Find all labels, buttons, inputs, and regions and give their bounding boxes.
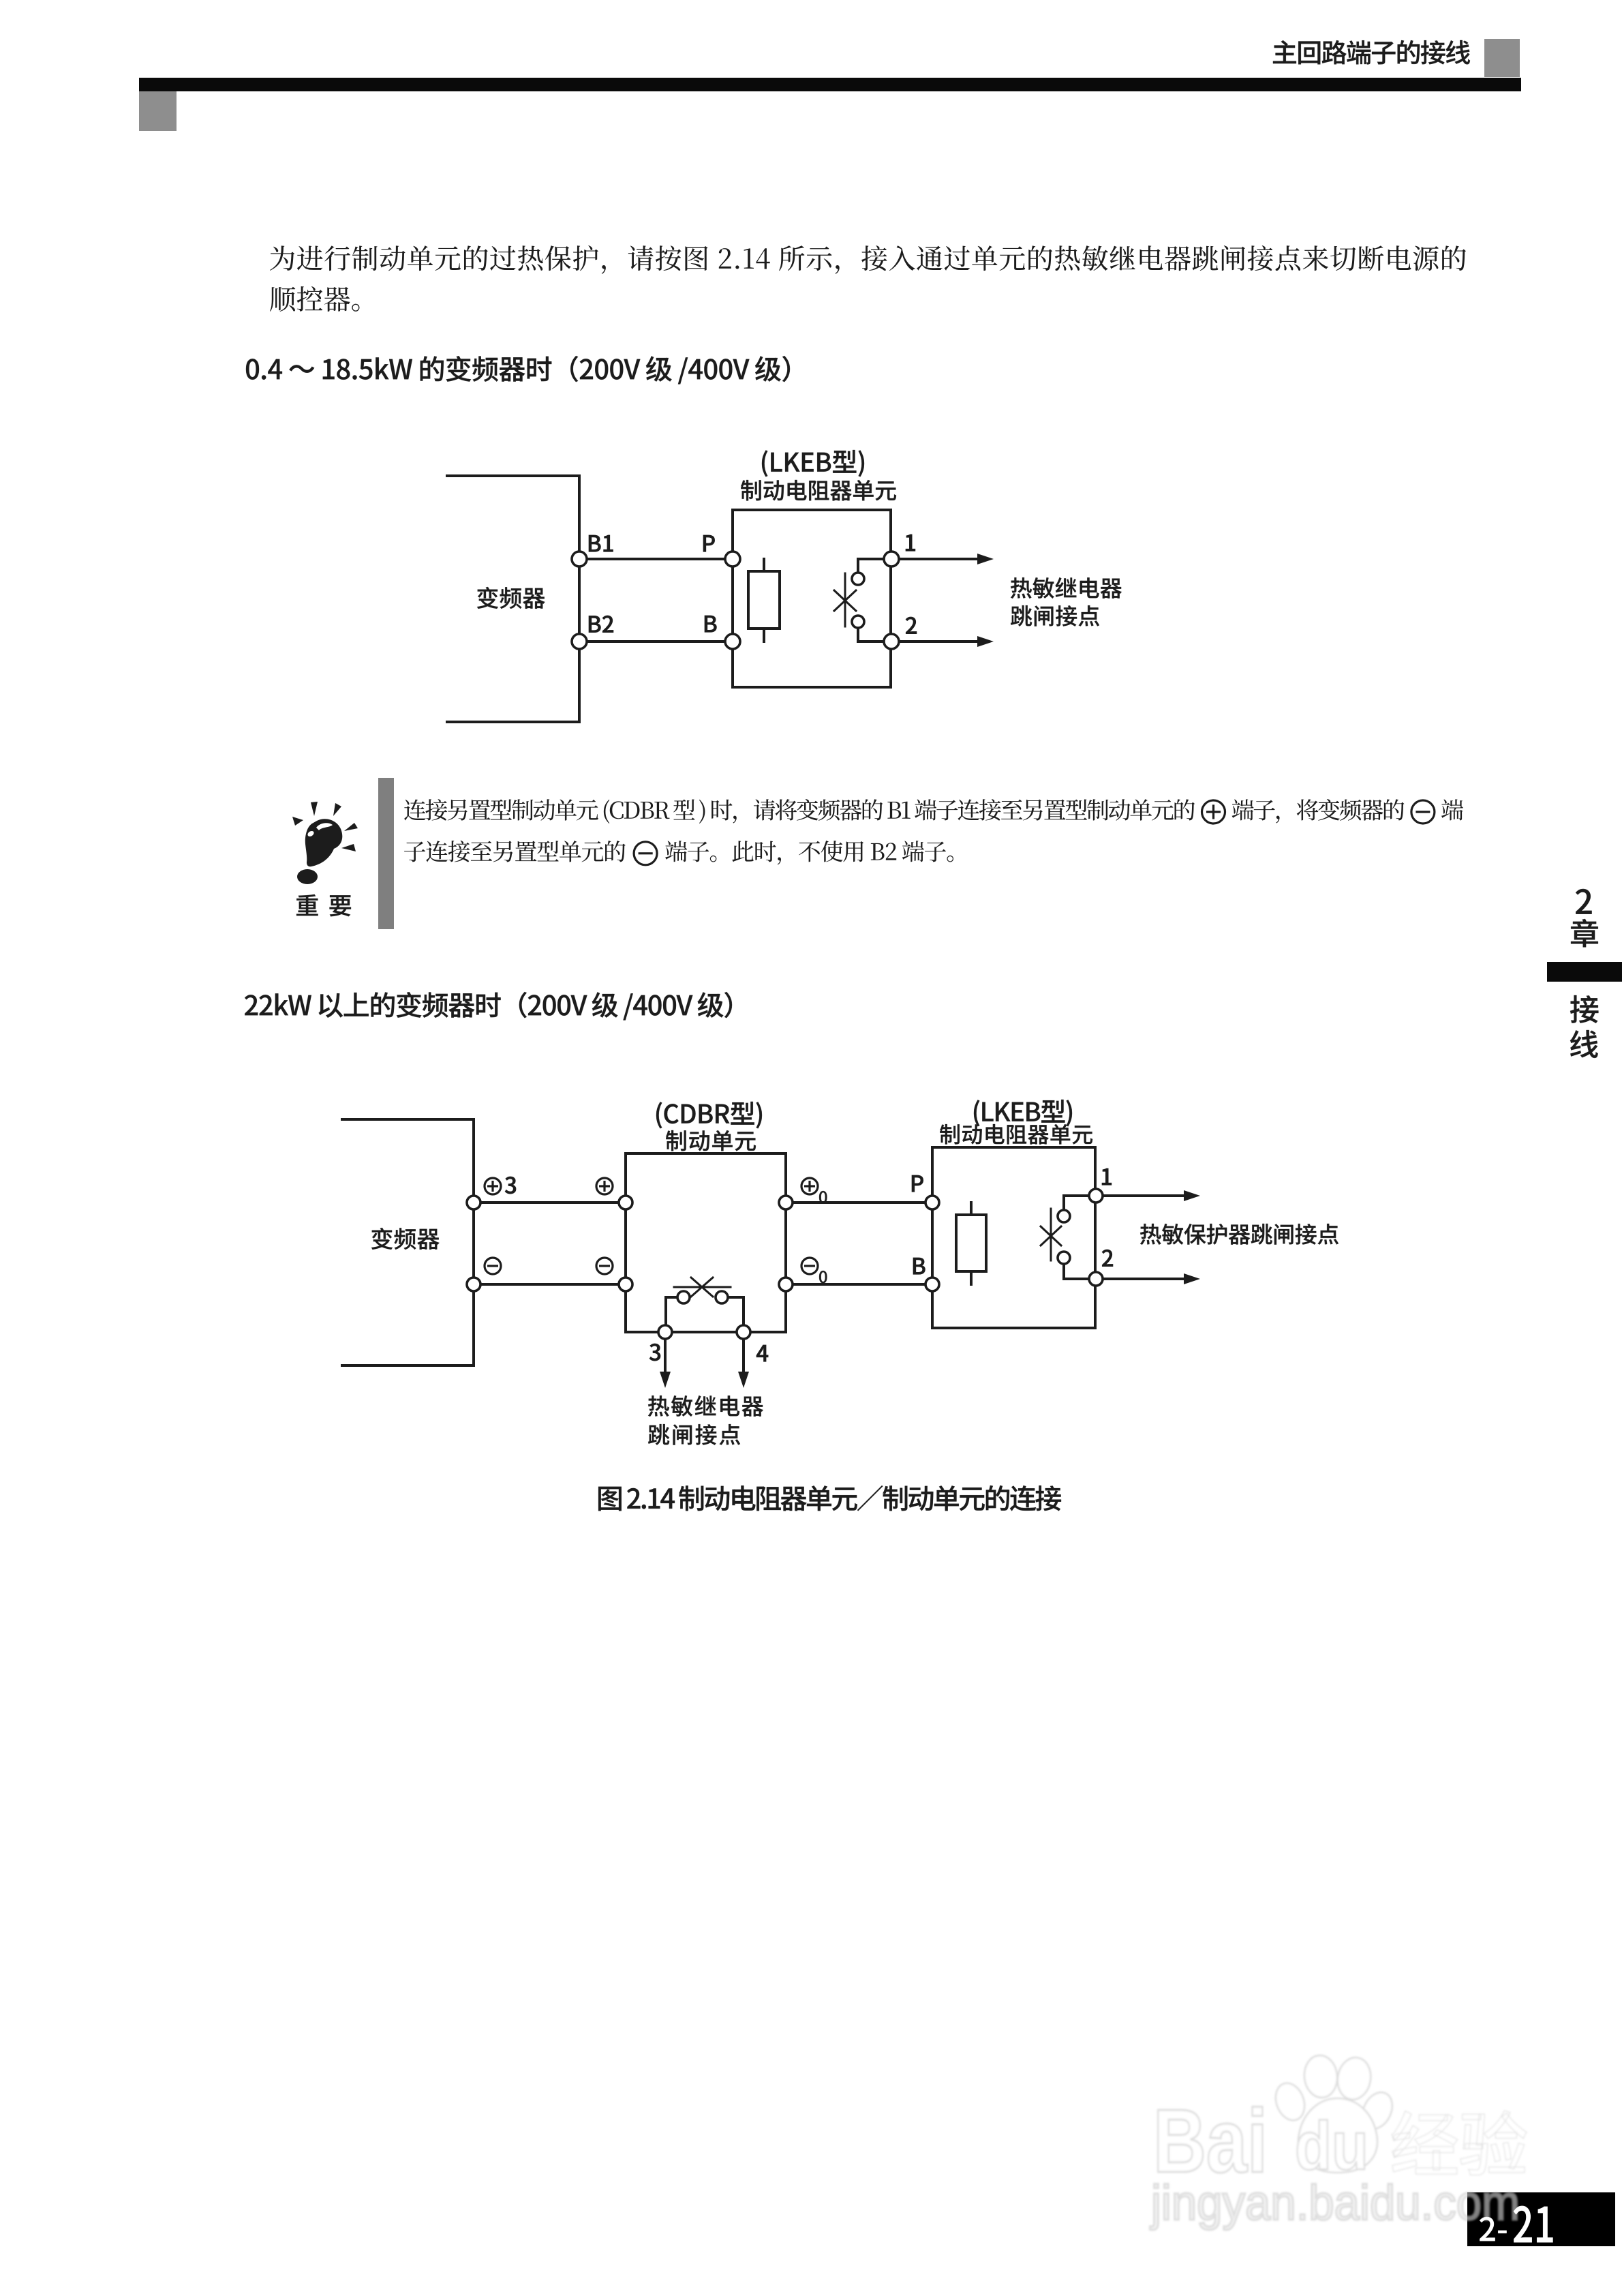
label 跳闸接点 D1: [1011, 605, 1099, 626]
terminal 2 D1: [884, 634, 899, 649]
header rule bar: [139, 78, 1521, 91]
figure caption: [598, 1485, 1061, 1511]
section heading 1: [246, 356, 790, 384]
label 1 D2: [1102, 1168, 1112, 1185]
label +3 circle-plus D2: [485, 1178, 501, 1194]
arrow wire 4 down: [742, 1339, 745, 1374]
wire CDBR+0 to P: [786, 1201, 932, 1204]
label + circle-plus CDBR left: [596, 1178, 613, 1194]
footer page number box: [1467, 2192, 1615, 2246]
label 制动电阻器单元 D2: [940, 1124, 1092, 1145]
label 跳闸接点 D2: [648, 1424, 740, 1445]
important icon: [292, 802, 358, 884]
label 热敏继电器 D1: [1011, 577, 1122, 599]
contact point right CDBR: [716, 1291, 728, 1303]
label 变频器 D1: [477, 587, 545, 609]
chapter tab 接: [1570, 995, 1598, 1023]
terminal 1 D1: [884, 552, 899, 567]
contact point upper D2: [1058, 1210, 1070, 1222]
arrowhead 2 D1: [977, 636, 994, 647]
section heading 2: [245, 992, 732, 1021]
arrowhead 2 D2: [1184, 1273, 1200, 1284]
terminal B D1: [725, 634, 740, 649]
CDBR braking unit box: [626, 1153, 786, 1332]
terminal inverter +3: [467, 1196, 480, 1209]
svg-text:jingyan.baidu.com: jingyan.baidu.com: [1150, 2176, 1520, 2231]
terminal CDBR -0: [779, 1278, 793, 1291]
terminal CDBR -: [619, 1278, 632, 1291]
page header title: [1273, 40, 1470, 64]
wire inverter- to CDBR-: [474, 1283, 626, 1286]
wire B1 to P: [579, 558, 733, 560]
label 变频器 D2: [371, 1228, 440, 1250]
label 热敏继电器 D2: [648, 1395, 763, 1417]
label B2: [589, 616, 613, 633]
arrowhead 1 D1: [977, 554, 994, 564]
header gray square right: [1484, 39, 1520, 77]
label (LKEB型) D1: [762, 450, 864, 477]
label B D1: [705, 616, 716, 632]
chapter tab black bar: [1547, 962, 1622, 982]
terminal 2 D2: [1089, 1272, 1103, 1286]
label - circle-minus CDBR left: [596, 1258, 613, 1274]
subscript 0 top: [819, 1191, 827, 1203]
arrow wire 1 D1: [899, 558, 981, 560]
chapter tab 线: [1570, 1030, 1598, 1058]
note text line 1: [404, 799, 1463, 824]
label 制动电阻器单元 D1: [741, 480, 896, 501]
wire inverter+3 to CDBR+: [474, 1201, 626, 1204]
inverter box (变频器) D1: [447, 476, 579, 722]
label 热敏保护器跳闸接点: [1140, 1224, 1338, 1245]
wire B2 to B: [579, 640, 733, 643]
body paragraph line 1: [270, 245, 1466, 274]
label B D2: [913, 1258, 925, 1274]
label -0 circle-minus CDBR right: [801, 1258, 818, 1274]
chapter tab number 2: [1576, 889, 1592, 914]
thermal contact bar+X D2: [1041, 1209, 1061, 1260]
terminal inverter -: [467, 1278, 480, 1291]
terminal CDBR +: [619, 1196, 632, 1209]
LKEB resistor unit box D1: [733, 510, 891, 687]
arrowhead 3 D2: [660, 1372, 671, 1388]
arrowhead 1 D2: [1184, 1190, 1200, 1201]
thermal contact wiring D2: [1064, 1196, 1089, 1210]
CDBR relay contact bar+X: [674, 1278, 731, 1297]
inverter box (变频器) D2: [342, 1119, 474, 1365]
terminal CDBR 4: [737, 1325, 750, 1339]
thermal contact bar+X D1: [834, 573, 856, 626]
contact point lower D2: [1058, 1252, 1070, 1264]
label 3 terminal: [649, 1344, 660, 1361]
header gray square left: [139, 91, 177, 131]
label 制动单元: [666, 1130, 756, 1151]
LKEB resistor unit box D2: [932, 1147, 1095, 1328]
label 3 after circle-plus: [505, 1177, 516, 1194]
label 2 D2: [1102, 1250, 1113, 1267]
terminal P D1: [725, 552, 740, 567]
arrowhead 4 D2: [738, 1372, 749, 1388]
label P D2: [912, 1175, 923, 1192]
terminal B1: [572, 552, 587, 567]
label B1: [589, 535, 613, 552]
page number 21: [1514, 2206, 1552, 2242]
label 2 D1: [906, 617, 917, 634]
arrow wire 3 down: [664, 1339, 667, 1374]
label (LKEB型) D2: [974, 1100, 1072, 1126]
braking resistor D1: [763, 559, 765, 571]
chapter tab 章: [1571, 919, 1598, 947]
label (CDBR型): [656, 1102, 762, 1128]
label 重 要: [296, 894, 351, 916]
subscript 0 bottom: [819, 1271, 827, 1283]
svg-text:du: du: [1295, 2108, 1368, 2184]
note gray bar: [378, 778, 394, 929]
label +0 circle-plus CDBR right: [801, 1178, 818, 1194]
arrow wire 2 D2: [1103, 1278, 1187, 1280]
label 1 D1: [906, 534, 915, 551]
label - circle-minus inverter D2: [485, 1258, 501, 1274]
note text line 2: [404, 841, 953, 864]
arrow wire 1 D2: [1103, 1194, 1187, 1197]
page number 2-: [1480, 2217, 1507, 2241]
terminal B2: [572, 634, 587, 649]
terminal B D2: [925, 1278, 939, 1291]
contact point left CDBR: [677, 1291, 690, 1303]
label P D1: [703, 535, 715, 552]
terminal CDBR +0: [779, 1196, 793, 1209]
label 4 terminal: [756, 1345, 768, 1361]
thermal contact wiring D1: [858, 559, 884, 572]
baidu watermark: [1150, 2054, 1527, 2231]
terminal CDBR 3: [658, 1325, 672, 1339]
arrow wire 2 D1: [899, 640, 981, 643]
braking resistor D2: [970, 1203, 973, 1215]
terminal 1 D2: [1089, 1189, 1103, 1203]
CDBR relay contact wiring: [666, 1297, 677, 1325]
contact point lower D1: [852, 616, 864, 628]
contact point upper D1: [852, 573, 864, 585]
body paragraph line 2: [270, 286, 360, 312]
wire CDBR-0 to B: [786, 1283, 932, 1286]
terminal P D2: [925, 1196, 939, 1209]
